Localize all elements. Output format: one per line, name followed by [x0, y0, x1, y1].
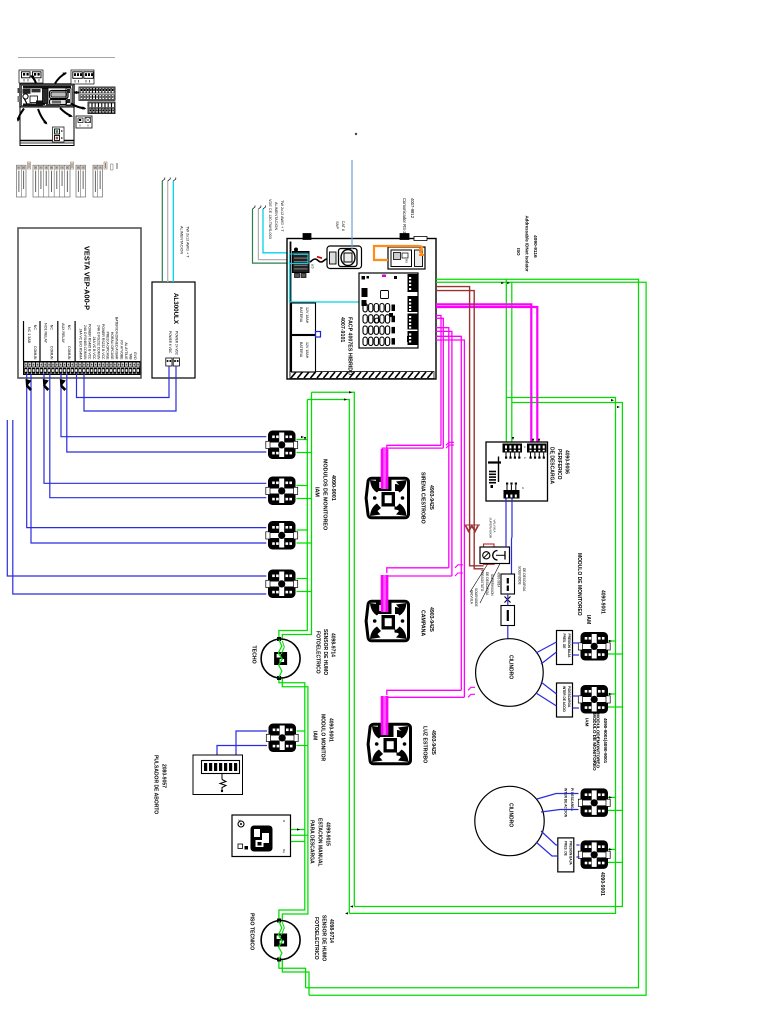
svg-text:INTER DE ACCIO: INTER DE ACCIO — [562, 686, 566, 712]
periferico de descarga 4090-9006 — [486, 442, 548, 501]
svg-text:CAMPANA: CAMPANA — [420, 610, 426, 636]
label box D — [558, 838, 574, 872]
monitor module IAM MB 4090-9001 — [578, 685, 610, 714]
svg-text:SNP: SNP — [335, 221, 339, 229]
svg-text:CAT 6: CAT 6 — [341, 221, 345, 231]
svg-text:BATERIA: BATERIA — [299, 307, 303, 323]
green IDNet loop wiring — [306, 279, 639, 988]
svg-text:24A VC E/O RS4MA: 24A VC E/O RS4MA — [78, 329, 82, 361]
svg-text:BATERIO KOMNEO AYBAR: BATERIO KOMNEO AYBAR — [115, 317, 119, 360]
monitor module IAM MA 4090-9001 — [578, 632, 610, 661]
svg-text:SOLENOIDE: SOLENOIDE — [474, 588, 478, 607]
battery 1 — [292, 303, 316, 335]
cilindro 2 — [475, 786, 544, 855]
svg-text:POWER RS232 B VCC: POWER RS232 B VCC — [101, 324, 105, 360]
AL300ULX auxiliary power supply — [152, 282, 195, 378]
svg-text:DE DESCARGA: DE DESCARGA — [549, 447, 555, 484]
svg-text:VESTA VEP-A00-P: VESTA VEP-A00-P — [83, 246, 92, 310]
estacion manual para descarga — [232, 815, 291, 857]
monitor module IAM MD 4090-9001 — [578, 840, 610, 869]
svg-text:VDE CE 120-TW/S-003: VDE CE 120-TW/S-003 — [268, 199, 272, 239]
strobe light 4903-9425 — [368, 724, 410, 764]
svg-text:PARA DESCARGA: PARA DESCARGA — [309, 820, 315, 864]
AL300ULX supply riser wires — [161, 181, 163, 282]
svg-text:HORALI OPCASE: HORALI OPCASE — [110, 332, 114, 360]
svg-text:NC: NC — [33, 325, 37, 331]
orange jumper wire — [374, 246, 419, 260]
FACP mains supply wires — [253, 209, 289, 263]
svg-text:ESTACION MANUAL: ESTACION MANUAL — [317, 818, 323, 867]
svg-text:AL AYTILIE: AL AYTILIE — [124, 342, 128, 360]
svg-text:AL300ULX: AL300ULX — [172, 293, 179, 325]
label box B — [557, 683, 573, 717]
cilindro 1 — [476, 639, 544, 707]
svg-text:4090-9814: 4090-9814 — [497, 572, 501, 587]
monitor module IAM MC 4090-9001 — [578, 788, 610, 817]
svg-text:MODULODEMONITOREO: MODULODEMONITOREO — [596, 713, 601, 768]
svg-text:JP: JP — [238, 819, 242, 823]
svg-text:TAB: TAB — [128, 353, 132, 360]
svg-text:IAM: IAM — [585, 615, 591, 624]
svg-text:4090-9116: 4090-9116 — [532, 235, 538, 258]
top-left inset: panel installation detail — [16, 58, 115, 146]
smoke sensor PISO TECNICO — [261, 919, 300, 962]
svg-text:CILINDRO: CILINDRO — [508, 803, 514, 827]
blue links cylinder2 — [537, 794, 579, 800]
svg-text:VALVULA: VALVULA — [470, 590, 474, 605]
svg-text:SENSOR DE HUMO: SENSOR DE HUMO — [321, 915, 327, 961]
smoke sensor TECHO — [261, 637, 300, 680]
siren w/ strobe 4903-9425 — [366, 478, 408, 518]
battery 2 — [292, 336, 316, 373]
svg-text:4090-9001: 4090-9001 — [599, 872, 605, 896]
svg-text:NC: NC — [67, 325, 71, 331]
maroon valve W symbol — [466, 526, 479, 532]
leader lines + tiny labels — [470, 564, 488, 593]
monitor module IAM M1 4090-9001 — [266, 431, 298, 460]
solenoid supervisory boxes — [501, 574, 515, 594]
svg-text:2080-9057: 2080-9057 — [161, 764, 167, 788]
svg-text:DE DESCARGA: DE DESCARGA — [485, 572, 489, 596]
svg-text:PERIFERICO: PERIFERICO — [556, 449, 562, 480]
svg-text:4099-9015: 4099-9015 — [325, 822, 331, 846]
svg-text:4903-9425: 4903-9425 — [430, 730, 436, 755]
svg-text:FOTOELECTRICO: FOTOELECTRICO — [313, 917, 319, 960]
svg-text:FOTOELECTRICO: FOTOELECTRICO — [315, 631, 321, 674]
transformer — [293, 252, 310, 273]
svg-text:Comunicador RS-232: Comunicador RS-232 — [402, 198, 407, 239]
svg-text:Dq: Dq — [282, 849, 286, 853]
svg-text:SIRENA C/ESTROBO: SIRENA C/ESTROBO — [420, 472, 426, 524]
svg-text:DE DESCARGA: DE DESCARGA — [522, 568, 526, 592]
blue wires periferico to valve/solenoid — [505, 499, 507, 548]
svg-text:4098-9714: 4098-9714 — [328, 919, 334, 943]
modulo monitor IAM — [266, 724, 298, 753]
svg-text:COMUN: COMUN — [67, 346, 71, 360]
svg-text:IAM: IAM — [585, 718, 590, 727]
svg-text:P/ DESCARGA: P/ DESCARGA — [570, 788, 574, 812]
RS-232 communicator module — [388, 247, 425, 269]
svg-text:FACP 4007ES HIBRIDO: FACP 4007ES HIBRIDO — [347, 317, 353, 375]
svg-text:PULSADOR DE ABORTO: PULSADOR DE ABORTO — [153, 755, 159, 814]
svg-text:MODULOS DE MONITOREO: MODULOS DE MONITOREO — [322, 459, 328, 530]
SNMP line — [351, 160, 353, 249]
svg-text:4090-9001: 4090-9001 — [328, 718, 334, 742]
magenta NAC circuits from FACP — [436, 304, 531, 446]
svg-text:PRESOSTATO: PRESOSTATO — [480, 570, 484, 592]
svg-text:POWER 24 VDC: POWER 24 VDC — [175, 331, 179, 356]
svg-text:COMUN: COMUN — [33, 346, 37, 360]
svg-text:4903-9425: 4903-9425 — [428, 485, 434, 510]
svg-text:4903-9425: 4903-9425 — [428, 607, 434, 632]
svg-text:ALIMENTACION: ALIMENTACION — [274, 202, 278, 230]
svg-text:BATERIA: BATERIA — [299, 342, 303, 358]
svg-text:24A VC B VCC: 24A VC B VCC — [92, 337, 96, 360]
svg-text:P/DESCARGA: P/DESCARGA — [567, 686, 571, 708]
monitor module IAM M3 4090-9001 — [266, 521, 298, 550]
monitor module IAM M2 4090-9001 — [266, 477, 298, 506]
svg-text:Addressable IDNet Isolator: Addressable IDNet Isolator — [525, 216, 530, 272]
svg-text:4007-9101: 4007-9101 — [339, 317, 345, 342]
maroon releasing circuit wires — [436, 287, 484, 566]
svg-text:SOLENOIDE: SOLENOIDE — [518, 566, 522, 585]
svg-text:a b: a b — [311, 264, 315, 269]
svg-text:IAM: IAM — [314, 487, 320, 497]
svg-text:12V 18AH: 12V 18AH — [305, 342, 309, 359]
svg-text:PRES. DE: PRES. DE — [562, 634, 566, 649]
svg-text:PRE30A OPCASE: PRE30A OPCASE — [106, 332, 110, 361]
FACP 4007ES cabinet — [287, 160, 436, 379]
phone cord — [310, 259, 327, 262]
svg-text:RV AYVOBE: RV AYVOBE — [119, 340, 123, 360]
svg-text:SENSOR DE HUMO: SENSOR DE HUMO — [322, 629, 328, 675]
svg-text:SUPERVISION: SUPERVISION — [489, 518, 493, 538]
dialer module — [327, 246, 362, 269]
svg-text:TW 2x12 AWG + T: TW 2x12 AWG + T — [280, 200, 284, 232]
svg-text:IAM: IAM — [312, 731, 318, 740]
svg-text:24A O RS485 COMUN: 24A O RS485 COMUN — [83, 325, 87, 360]
svg-text:MODULO MONITOR: MODULO MONITOR — [320, 714, 326, 762]
svg-text:RS: RS — [405, 259, 409, 263]
svg-text:POWER RS485 B VCC: POWER RS485 B VCC — [87, 324, 91, 360]
pressure switch label box A — [557, 631, 573, 665]
svg-text:COMUN: COMUN — [50, 346, 54, 360]
svg-text:INTER DE ACCION: INTER DE ACCION — [564, 788, 568, 818]
bell 4903-9425 campana — [366, 601, 408, 641]
monitor module IAM M4 4090-9001 — [266, 570, 298, 599]
svg-text:4090-9001|4090-9001: 4090-9001|4090-9001 — [603, 718, 608, 764]
pulsador de aborto box — [193, 755, 243, 795]
svg-text:AUX RELAY: AUX RELAY — [61, 323, 65, 344]
svg-text:ALIMENTACION: ALIMENTACION — [180, 226, 184, 254]
svg-text:CILINDRO: CILINDRO — [508, 655, 514, 679]
internal cyan wire to board — [290, 263, 360, 302]
svg-text:4090-9001: 4090-9001 — [330, 475, 336, 501]
svg-text:ISO: ISO — [516, 248, 521, 256]
blue wires to pulsador — [236, 731, 267, 761]
svg-text:GVO: GVO — [133, 352, 137, 360]
main CPU board — [359, 273, 418, 348]
svg-text:4090-9001: 4090-9001 — [600, 590, 606, 614]
svg-text:LUZ ESTROBO: LUZ ESTROBO — [422, 726, 428, 763]
blue links cylinder1 — [536, 642, 557, 653]
svg-text:PRES. DE: PRES. DE — [563, 841, 567, 856]
svg-text:4007-9812: 4007-9812 — [410, 198, 415, 219]
svg-text:PRESION BAJA: PRESION BAJA — [568, 841, 572, 866]
svg-text:4098-9714: 4098-9714 — [330, 633, 336, 657]
VESTA VEP-A00-P control panel — [18, 228, 141, 378]
releasing valve assembly — [484, 544, 495, 564]
legend tables under inset — [17, 162, 118, 197]
svg-text:24A O RS232 COMUN: 24A O RS232 COMUN — [97, 325, 101, 360]
svg-text:TECHO: TECHO — [251, 646, 257, 664]
svg-text:12V 18AH: 12V 18AH — [305, 307, 309, 324]
svg-text:SUPERVISION: SUPERVISION — [490, 574, 494, 596]
svg-text:NO1 RELAY: NO1 RELAY — [44, 323, 48, 344]
svg-text:TW 2x12 AWG + T: TW 2x12 AWG + T — [186, 226, 190, 258]
svg-text:PRESION BAJA: PRESION BAJA — [567, 634, 571, 659]
svg-text:POWER 6 VDC: POWER 6 VDC — [168, 331, 172, 354]
svg-text:VALVULA: VALVULA — [493, 520, 497, 533]
svg-text:PISO TECNICO: PISO TECNICO — [249, 913, 255, 950]
svg-text:4090-9006: 4090-9006 — [564, 450, 570, 474]
blue IDC wires from VESTA to monitor modules — [61, 374, 266, 437]
svg-text:MODULO DE MONITOREO: MODULO DE MONITOREO — [576, 553, 582, 616]
svg-text:NC 1 3AB: NC 1 3AB — [27, 327, 31, 344]
svg-text:NC: NC — [50, 325, 54, 331]
